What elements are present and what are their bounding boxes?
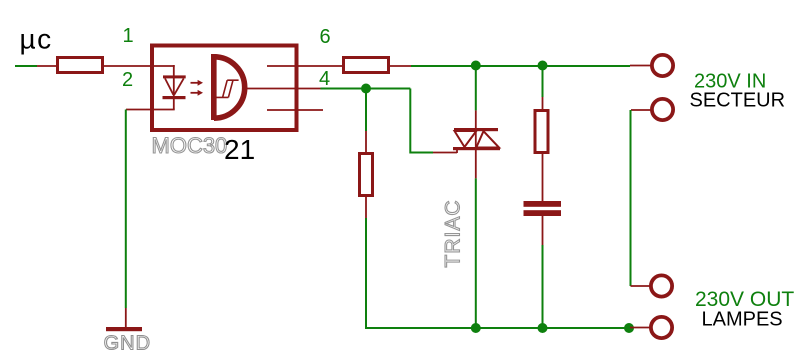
ground symbol	[106, 327, 142, 331]
LED of optocoupler	[163, 75, 186, 99]
svg-text:LAMPES: LAMPES	[702, 309, 783, 331]
terminal pad LAMPES	[651, 317, 672, 338]
capacitor C1	[524, 201, 562, 216]
wire R1 to optocoupler pin 1	[104, 65, 175, 77]
triac T1	[453, 110, 500, 178]
230V OUT label	[695, 288, 794, 311]
GND label	[104, 333, 151, 355]
wire R4 to C1	[542, 154, 544, 202]
wire R3 to bottom net	[366, 197, 630, 328]
photo-triac detector D shape	[211, 54, 245, 120]
21 label black	[224, 134, 255, 165]
svg-text:21: 21	[224, 134, 255, 165]
resistor R3	[360, 154, 373, 196]
230V IN label	[694, 71, 766, 93]
resistor R4 snubber	[535, 111, 548, 153]
terminal pad 230V OUT top	[651, 275, 672, 296]
junction node triac bottom	[471, 323, 481, 333]
resistor R2	[344, 58, 389, 73]
wire LED cathode to pin 2	[126, 99, 175, 110]
svg-text:TRIAC: TRIAC	[442, 200, 465, 268]
LAMPES label	[702, 309, 783, 331]
hysteresis symbol	[216, 80, 239, 97]
svg-text:GND: GND	[104, 333, 151, 355]
wire snubber top	[542, 66, 544, 111]
junction node triac top	[471, 61, 481, 71]
wire pin 6 to R2	[267, 65, 344, 67]
junction node snubber bottom	[538, 323, 548, 333]
TRIAC label	[442, 200, 465, 268]
junction node bottom right	[624, 323, 634, 333]
wire bracket SECTEUR to 230V OUT	[631, 110, 652, 286]
wire net from microcontroller input	[15, 65, 57, 67]
pin 1 label	[123, 25, 134, 47]
pin 2 label	[122, 69, 133, 91]
pin 4 label	[319, 68, 330, 90]
wire junction down to R3	[365, 89, 367, 154]
svg-text:4: 4	[319, 68, 330, 90]
light arrows	[191, 80, 204, 96]
wire gate of triac	[410, 89, 457, 154]
wire C1 to bottom net	[542, 216, 544, 328]
junction node snubber top	[538, 61, 548, 71]
SECTEUR label	[690, 90, 786, 112]
svg-text:µc: µc	[20, 24, 53, 55]
terminal pad 230V IN top	[652, 55, 673, 76]
pin 6 label	[320, 26, 331, 48]
svg-text:2: 2	[122, 69, 133, 91]
svg-text:6: 6	[320, 26, 331, 48]
op-amp U1 optocoupler MOC3021 box	[152, 46, 297, 131]
svg-text:SECTEUR: SECTEUR	[690, 90, 786, 112]
wire GND from pin 2	[125, 110, 127, 328]
wire to terminal 230V OUT bottom	[630, 327, 650, 329]
wire R2 to 230V IN top net	[390, 65, 651, 68]
wire pin 4 output	[247, 88, 410, 90]
unconnected stub pin 5	[267, 109, 323, 111]
junction node pin4	[361, 84, 371, 94]
MOC30 value label gray	[152, 133, 228, 158]
svg-text:MOC30: MOC30	[152, 133, 228, 158]
terminal pad SECTEUR bottom	[652, 99, 673, 120]
label µc	[20, 24, 53, 55]
svg-text:1: 1	[123, 25, 134, 47]
wire triac MT2 up to top net	[475, 66, 477, 110]
wire triac MT1 down to bottom net	[475, 178, 477, 328]
resistor R1	[58, 58, 103, 73]
